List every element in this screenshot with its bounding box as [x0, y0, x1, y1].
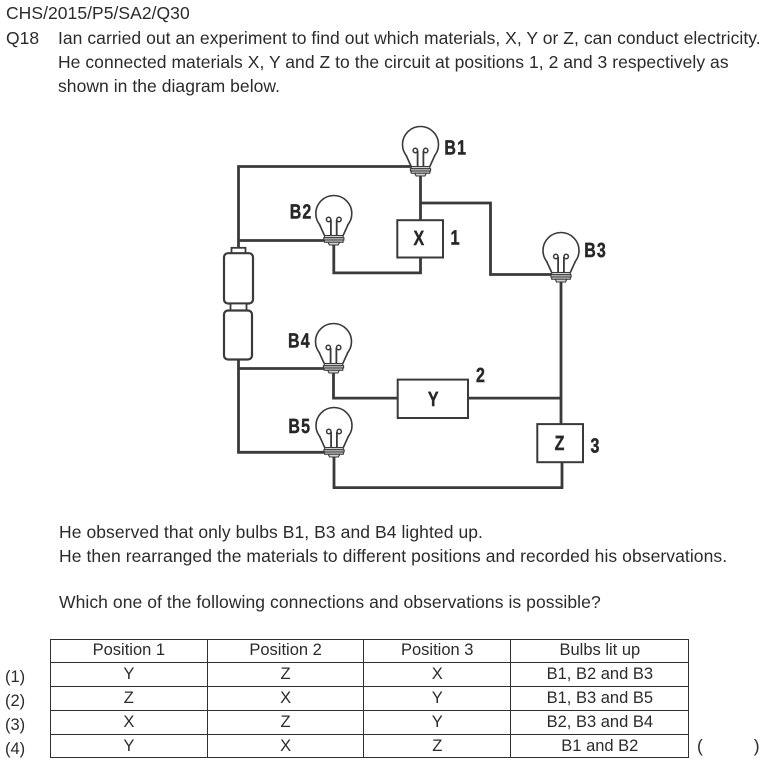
svg-text:1: 1	[450, 227, 460, 250]
svg-text:Y: Y	[428, 388, 440, 411]
svg-text:2: 2	[476, 364, 486, 387]
svg-text:B1: B1	[444, 137, 467, 160]
svg-text:B4: B4	[288, 330, 311, 353]
svg-text:B3: B3	[584, 239, 607, 262]
svg-text:B5: B5	[288, 415, 311, 438]
svg-text:X: X	[413, 227, 425, 250]
svg-text:3: 3	[590, 435, 600, 458]
svg-text:B2: B2	[290, 201, 313, 224]
svg-text:Z: Z	[555, 432, 566, 455]
